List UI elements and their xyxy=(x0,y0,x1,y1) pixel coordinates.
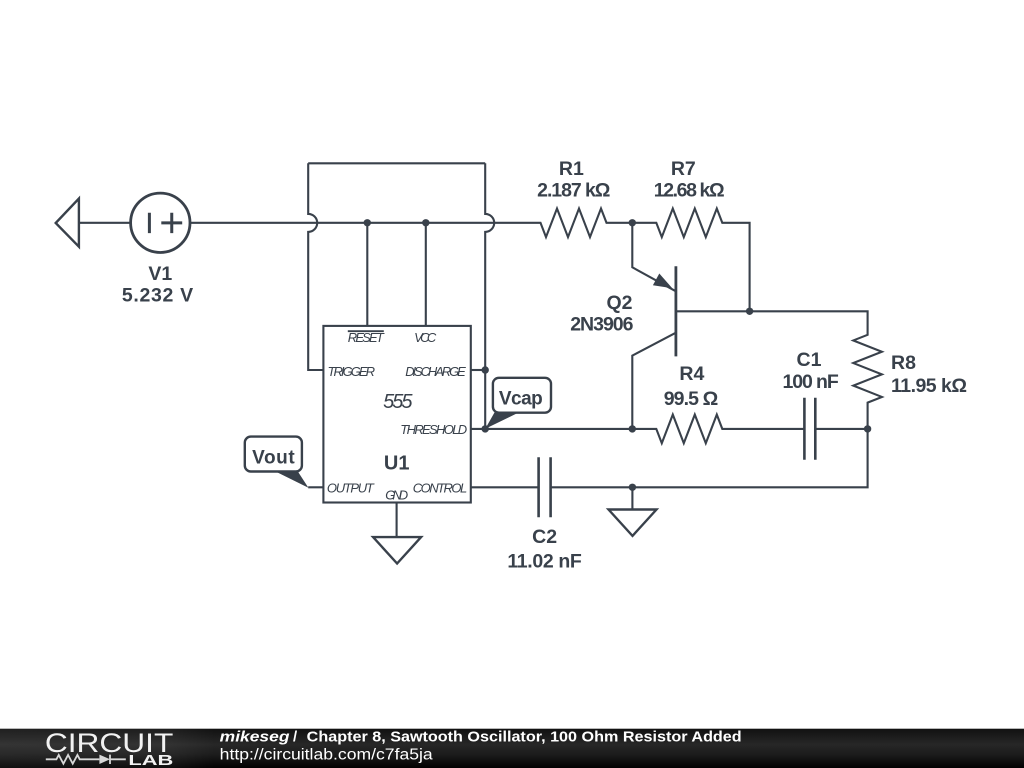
svg-text:11.02 nF: 11.02 nF xyxy=(507,551,582,573)
svg-text:TRIGGER: TRIGGER xyxy=(328,364,376,379)
svg-text:LAB: LAB xyxy=(128,753,173,768)
svg-text:R1: R1 xyxy=(559,158,584,180)
svg-text:GND: GND xyxy=(385,487,408,502)
svg-text:R8: R8 xyxy=(891,352,916,374)
svg-text:U1: U1 xyxy=(384,453,410,475)
svg-text:Vcap: Vcap xyxy=(499,389,543,410)
svg-text:Vout: Vout xyxy=(252,448,295,469)
svg-text:V1: V1 xyxy=(148,263,172,285)
svg-text:C1: C1 xyxy=(797,349,822,371)
svg-text:5.232 V: 5.232 V xyxy=(122,285,193,307)
svg-text:DISCHARGE: DISCHARGE xyxy=(405,364,466,379)
svg-text:C2: C2 xyxy=(532,526,557,548)
svg-text:2.187 kΩ: 2.187 kΩ xyxy=(537,180,610,202)
svg-text:CONTROL: CONTROL xyxy=(413,481,467,496)
svg-text:THRESHOLD: THRESHOLD xyxy=(400,422,467,437)
svg-text:OUTPUT: OUTPUT xyxy=(327,481,375,496)
svg-text:555: 555 xyxy=(383,391,413,413)
svg-text:11.95 kΩ: 11.95 kΩ xyxy=(891,375,967,397)
svg-text:VCC: VCC xyxy=(414,330,437,345)
svg-text:http://circuitlab.com/c7fa5ja: http://circuitlab.com/c7fa5ja xyxy=(220,747,433,764)
svg-text:2N3906: 2N3906 xyxy=(570,314,633,336)
svg-text:R4: R4 xyxy=(679,363,704,385)
svg-text:Q2: Q2 xyxy=(606,292,632,314)
svg-text:100 nF: 100 nF xyxy=(782,371,838,393)
svg-text:R7: R7 xyxy=(671,158,696,180)
svg-text:99.5 Ω: 99.5 Ω xyxy=(664,388,719,410)
svg-text:12.68 kΩ: 12.68 kΩ xyxy=(654,180,725,202)
